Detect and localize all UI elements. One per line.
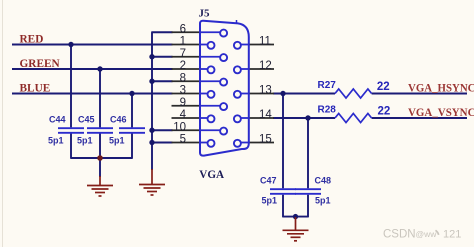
- svg-text:VGA_VSYNC: VGA_VSYNC: [408, 105, 474, 119]
- wire rail to pin 5: [152, 142, 173, 144]
- pin 7 lead: [172, 56, 201, 58]
- pin 8 lead: [172, 80, 201, 82]
- wire C47 top: [282, 94, 284, 189]
- resistor R28: [335, 114, 372, 123]
- wire pin 14 to R28: [273, 117, 335, 119]
- pin 9 hole: [220, 103, 227, 110]
- wire C46 top: [131, 94, 133, 128]
- svg-text:5p1: 5p1: [77, 135, 93, 145]
- junction RED/C44: [68, 42, 73, 47]
- junction pin14/C48: [305, 115, 310, 120]
- pin 15 hole: [234, 140, 241, 147]
- pin 6 hole: [220, 30, 227, 37]
- wire rail to pin 6: [151, 31, 172, 33]
- pin 6 lead: [172, 31, 201, 33]
- svg-text:5: 5: [180, 134, 186, 146]
- pin 3 inner line: [200, 93, 208, 95]
- pin 10 lead: [172, 129, 201, 131]
- svg-text:8: 8: [180, 72, 186, 84]
- svg-text:1: 1: [180, 36, 186, 48]
- wire pin 13 to R27: [273, 93, 335, 95]
- pin 11 inner line: [241, 44, 249, 46]
- svg-text:5p1: 5p1: [109, 135, 125, 145]
- svg-text:9: 9: [180, 97, 186, 109]
- wire BLUE net: [12, 93, 173, 95]
- pin 5 inner line: [200, 142, 208, 144]
- pin 7 inner line: [200, 56, 220, 58]
- svg-text:22: 22: [377, 81, 390, 93]
- svg-text:5p1: 5p1: [315, 196, 331, 206]
- svg-text:@ww: @ww: [416, 229, 438, 239]
- pin 3 lead: [172, 93, 201, 95]
- pin 5 lead: [172, 142, 201, 144]
- junction bottom rail ground: [293, 214, 298, 219]
- svg-text:4: 4: [180, 109, 187, 121]
- wire ground rail vertical: [151, 32, 153, 170]
- ground G3 stem: [295, 217, 297, 230]
- svg-text:11: 11: [259, 36, 271, 48]
- wire C45 bottom: [99, 133, 101, 158]
- pin 4 lead: [172, 117, 201, 119]
- sheet edge line: [2, 0, 4, 247]
- capacitor C46 plates: [119, 127, 145, 129]
- capacitor C48 plates: [295, 188, 321, 190]
- pin 2 lead: [172, 68, 201, 70]
- svg-text:CSDN: CSDN: [383, 228, 416, 240]
- svg-text:R27: R27: [318, 80, 337, 91]
- svg-text:12: 12: [259, 60, 272, 72]
- svg-text:C45: C45: [78, 115, 95, 125]
- wire C47 bottom: [282, 195, 284, 218]
- wire RED net: [12, 44, 173, 46]
- svg-text:RED: RED: [20, 34, 44, 46]
- wire caps bottom rail: [71, 157, 132, 159]
- svg-text:3: 3: [180, 85, 186, 97]
- svg-text:10: 10: [173, 121, 186, 133]
- svg-text:BLUE: BLUE: [20, 83, 51, 95]
- pin 4 hole: [208, 115, 215, 122]
- junction GREEN/C45: [97, 66, 102, 71]
- junction pin13/C47: [280, 91, 285, 96]
- junction BLUE/C46: [129, 91, 134, 96]
- pin 12 hole: [234, 66, 241, 73]
- svg-text:VGA_HSYNC: VGA_HSYNC: [408, 81, 474, 95]
- wire C44 bottom: [70, 133, 72, 159]
- connector J5 body: [200, 21, 249, 156]
- junction rail pin8: [149, 79, 154, 84]
- pin 2 inner line: [200, 68, 208, 70]
- capacitor C44 plates: [58, 127, 84, 129]
- pin 12 lead: [249, 68, 274, 70]
- pin 1 inner line: [200, 44, 208, 46]
- pin 13 inner line: [241, 93, 249, 95]
- svg-text:13: 13: [259, 85, 272, 97]
- svg-text:5p1: 5p1: [48, 135, 64, 145]
- pin 10 hole: [220, 128, 227, 135]
- pin 9 inner line: [200, 105, 220, 107]
- pin 14 lead: [249, 117, 274, 119]
- pin 8 hole: [220, 79, 227, 86]
- junction rail pin10: [149, 128, 154, 133]
- connector top tick: [236, 20, 238, 24]
- wire C48 bottom: [307, 195, 309, 218]
- pin 6 inner line: [200, 31, 220, 33]
- svg-text:C48: C48: [315, 175, 332, 185]
- ground G3 bars: [283, 229, 309, 231]
- pin 10 inner line: [200, 129, 220, 131]
- pin 14 inner line: [241, 117, 249, 119]
- pin 13 lead: [249, 93, 274, 95]
- ground G1 bars: [87, 185, 113, 187]
- ground G1 stem: [99, 176, 101, 185]
- junction rail pin7: [149, 54, 154, 59]
- pin 3 hole: [208, 91, 215, 98]
- pin 8 inner line: [200, 80, 220, 82]
- ground G2 stem: [151, 169, 153, 184]
- wire R27 to VGA_HSYNC: [372, 93, 467, 95]
- pin 11 lead: [249, 44, 274, 46]
- wire GREEN net: [12, 68, 173, 70]
- svg-text:GREEN: GREEN: [20, 58, 61, 70]
- svg-text:2: 2: [180, 60, 186, 72]
- junction rail pin5: [149, 140, 154, 145]
- svg-text:14: 14: [259, 109, 272, 121]
- wire rail to pin 8: [152, 80, 173, 82]
- pin 14 hole: [234, 115, 241, 122]
- svg-text:22: 22: [378, 105, 391, 117]
- pin 9 lead: [172, 105, 201, 107]
- pin 1 hole: [208, 42, 215, 49]
- capacitor C47 plates: [270, 188, 296, 190]
- svg-text:5p1: 5p1: [262, 196, 278, 206]
- junction caps rail ground (maroon): [97, 155, 103, 161]
- wire C48 top: [307, 118, 309, 188]
- pin 5 hole: [208, 140, 215, 147]
- pin 15 inner line: [241, 142, 249, 144]
- pin 7 hole: [220, 54, 227, 61]
- wire stem to ground G1: [99, 158, 101, 177]
- wire rail to pin 10: [152, 129, 173, 131]
- capacitor C45 plates: [87, 127, 113, 129]
- svg-text:C47: C47: [260, 175, 277, 185]
- resistor R27: [335, 89, 372, 98]
- svg-text:C46: C46: [110, 115, 127, 125]
- pin 11 hole: [234, 42, 241, 49]
- pin 1 lead: [172, 44, 201, 46]
- svg-text:R28: R28: [318, 104, 337, 115]
- svg-text:J5: J5: [199, 7, 211, 19]
- wire C47 C48 bottom rail: [283, 216, 308, 218]
- svg-text:VGA: VGA: [199, 167, 224, 181]
- pin 13 hole: [234, 91, 241, 98]
- wire C46 bottom: [131, 133, 133, 159]
- wire R28 to VGA_VSYNC: [372, 117, 467, 119]
- pin 2 hole: [208, 66, 215, 73]
- svg-text:7: 7: [180, 48, 186, 60]
- svg-text:121: 121: [443, 228, 461, 240]
- pin 4 inner line: [200, 117, 208, 119]
- wire rail to pin 7: [152, 56, 173, 58]
- watermark CSDN: [383, 228, 461, 240]
- svg-text:15: 15: [259, 134, 272, 146]
- svg-text:6: 6: [180, 23, 186, 35]
- wire C45 top: [99, 69, 101, 127]
- svg-text:C44: C44: [49, 115, 66, 125]
- wire C44 top: [70, 45, 72, 128]
- pin 12 inner line: [241, 68, 249, 70]
- ground G2 bars: [139, 184, 165, 186]
- pin 15 lead: [249, 142, 274, 144]
